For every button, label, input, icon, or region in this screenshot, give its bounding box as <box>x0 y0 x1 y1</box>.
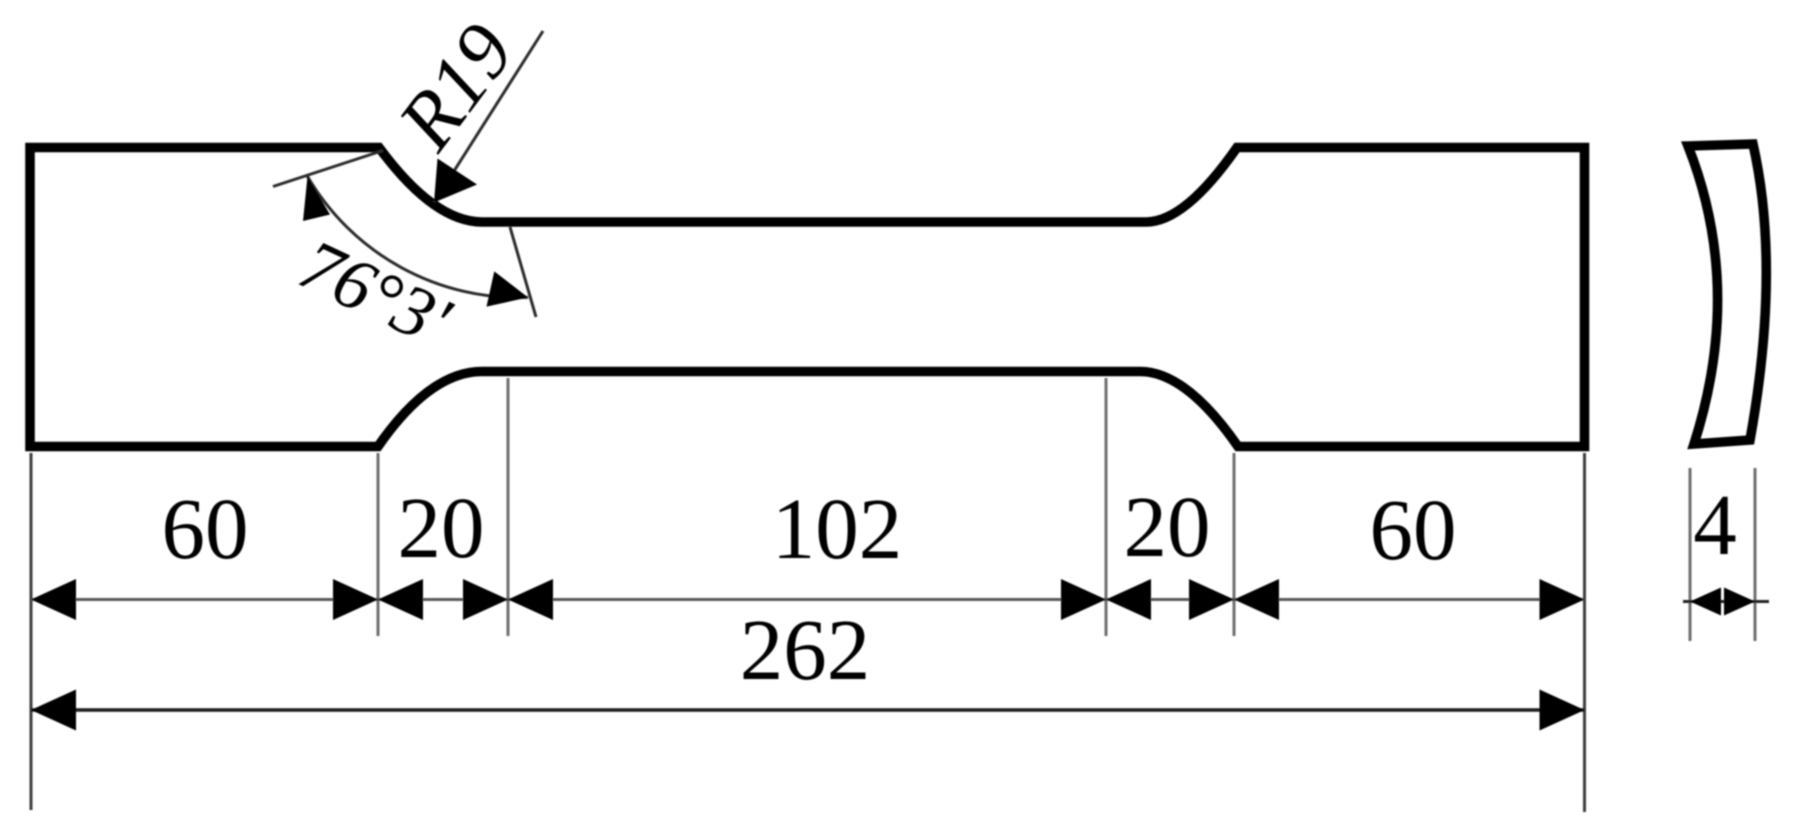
4-dim line <box>1683 600 1769 603</box>
arrow left tip 508 <box>508 579 553 620</box>
extension line x=1234 <box>1233 453 1236 636</box>
svg-text:262: 262 <box>740 601 871 698</box>
extension line x=508 <box>507 378 510 636</box>
arrow right tip 1584.5 row2 <box>1540 690 1585 731</box>
extension line x=378 <box>377 453 380 636</box>
arrow right tip 1584.5 <box>1540 579 1585 620</box>
svg-text:4: 4 <box>1693 476 1737 573</box>
arrow left tip 1234 <box>1234 579 1279 620</box>
arrow left tip 31 row2 <box>31 690 76 731</box>
angle arc arrow up (left end) <box>303 177 330 222</box>
arrow right tip 1234 <box>1189 579 1234 620</box>
svg-text:60: 60 <box>1370 481 1457 578</box>
4-dim extension lines <box>1689 468 1692 641</box>
svg-text:76°3': 76°3' <box>288 223 463 362</box>
arrow left tip 31 <box>31 579 76 620</box>
arrow right tip 508 <box>463 579 508 620</box>
dimension line row 1 (60/20/102/20/60) <box>31 598 1585 601</box>
specimen outline (dog-bone front view) <box>30 148 1585 447</box>
angle dim side line A <box>273 151 383 187</box>
R19 leader arrowhead <box>434 159 477 203</box>
arrow right tip 378 <box>333 579 378 620</box>
4-dim arrow right <box>1724 588 1755 616</box>
arrow left tip 378 <box>378 579 423 620</box>
svg-text:R19: R19 <box>380 7 531 166</box>
extension line x=1584.5 (right end) <box>1583 453 1586 812</box>
svg-text:20: 20 <box>1124 478 1211 575</box>
4-dim arrow left <box>1690 588 1721 616</box>
arrow right tip 1106 <box>1061 579 1106 620</box>
svg-text:60: 60 <box>162 480 249 577</box>
arrow left tip 1106 <box>1106 579 1151 620</box>
side view (curved thin section) <box>1688 144 1766 444</box>
extension line x=31 (left end) <box>30 453 33 810</box>
extension line x=1106 <box>1105 378 1108 636</box>
angle dim side line B <box>510 227 536 317</box>
dimension line row 2 (262) <box>31 708 1585 711</box>
angle arc arrow right (right end) <box>487 271 529 306</box>
svg-text:20: 20 <box>398 479 485 576</box>
angle dim arc <box>308 177 529 298</box>
svg-text:102: 102 <box>772 480 903 577</box>
R19 leader line <box>434 31 543 203</box>
